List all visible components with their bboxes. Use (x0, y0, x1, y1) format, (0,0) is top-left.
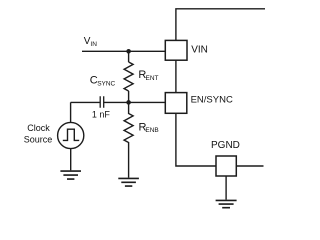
svg-text:EN/SYNC: EN/SYNC (191, 95, 233, 106)
svg-text:ENB: ENB (145, 127, 158, 134)
svg-text:PGND: PGND (211, 140, 240, 151)
svg-text:SYNC: SYNC (97, 80, 115, 87)
svg-text:IN: IN (90, 41, 97, 48)
svg-text:1 nF: 1 nF (92, 110, 111, 120)
svg-text:ENT: ENT (146, 75, 159, 82)
svg-text:VIN: VIN (191, 44, 208, 55)
svg-text:Clock: Clock (27, 123, 50, 133)
svg-text:Source: Source (24, 135, 53, 145)
